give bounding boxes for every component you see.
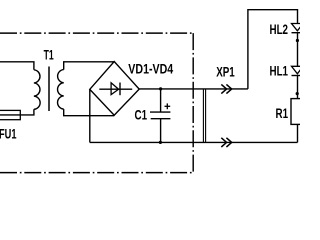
fuse FU1 bbox=[0, 110, 20, 119]
connector XP1 plug arrows on 0V rail bbox=[221, 138, 231, 147]
enclosure dash-dot border bottom bbox=[0, 172, 193, 174]
svg-text:XP1: XP1 bbox=[216, 64, 235, 80]
junction node: C1 top bbox=[159, 87, 162, 90]
polarity plus mark of C1 bbox=[165, 103, 171, 109]
transformer T1 secondary winding bbox=[58, 70, 64, 110]
svg-text:T1: T1 bbox=[44, 48, 55, 64]
svg-text:R1: R1 bbox=[276, 105, 289, 121]
wire: bridge minus (left corner) down to 0V rail bbox=[89, 89, 91, 142]
wire: T1 primary bottom to fuse bbox=[20, 109, 34, 115]
wire: 0V bottom rail bbox=[90, 141, 298, 143]
svg-text:HL2: HL2 bbox=[270, 21, 289, 37]
svg-text:C1: C1 bbox=[135, 107, 148, 123]
resistor R1 bbox=[291, 99, 303, 125]
LED HL2 bbox=[292, 24, 304, 33]
transformer T1 core bbox=[48, 67, 50, 112]
junction node below HL2 bbox=[296, 39, 299, 42]
wire: T1 secondary top to bridge AC top bbox=[64, 62, 114, 70]
junction node: C1 bottom bbox=[159, 141, 162, 144]
junction node below HL1 bbox=[296, 92, 299, 95]
diode symbol inside bridge bbox=[99, 83, 132, 96]
wire: lamp unit loop from plus rail up and across bbox=[248, 10, 298, 89]
svg-text:FU1: FU1 bbox=[0, 126, 17, 143]
connector XP1 double line bbox=[203, 89, 205, 142]
bridge rectifier VD1-VD4 diamond bbox=[90, 62, 139, 116]
svg-text:HL1: HL1 bbox=[270, 63, 289, 79]
capacitor C1 bbox=[150, 89, 170, 142]
svg-text:VD1-VD4: VD1-VD4 bbox=[128, 61, 173, 77]
wire: R1 bottom to 0V rail bbox=[297, 124, 299, 142]
wire: plus top rail bbox=[139, 88, 248, 90]
wire: HL2 to HL1 bbox=[297, 33, 299, 67]
enclosure dash-dot border right bbox=[192, 33, 194, 173]
transformer T1 primary winding bbox=[34, 70, 40, 110]
connector XP1 plug arrows on plus rail bbox=[221, 84, 231, 93]
wire: HL1 to R1 bbox=[297, 76, 299, 99]
enclosure dash-dot border top bbox=[0, 32, 193, 34]
wire: T1 secondary bottom to bridge AC bottom bbox=[64, 109, 114, 116]
LED HL1 bbox=[292, 66, 304, 75]
wire: mains line input to T1 primary top bbox=[0, 62, 34, 70]
